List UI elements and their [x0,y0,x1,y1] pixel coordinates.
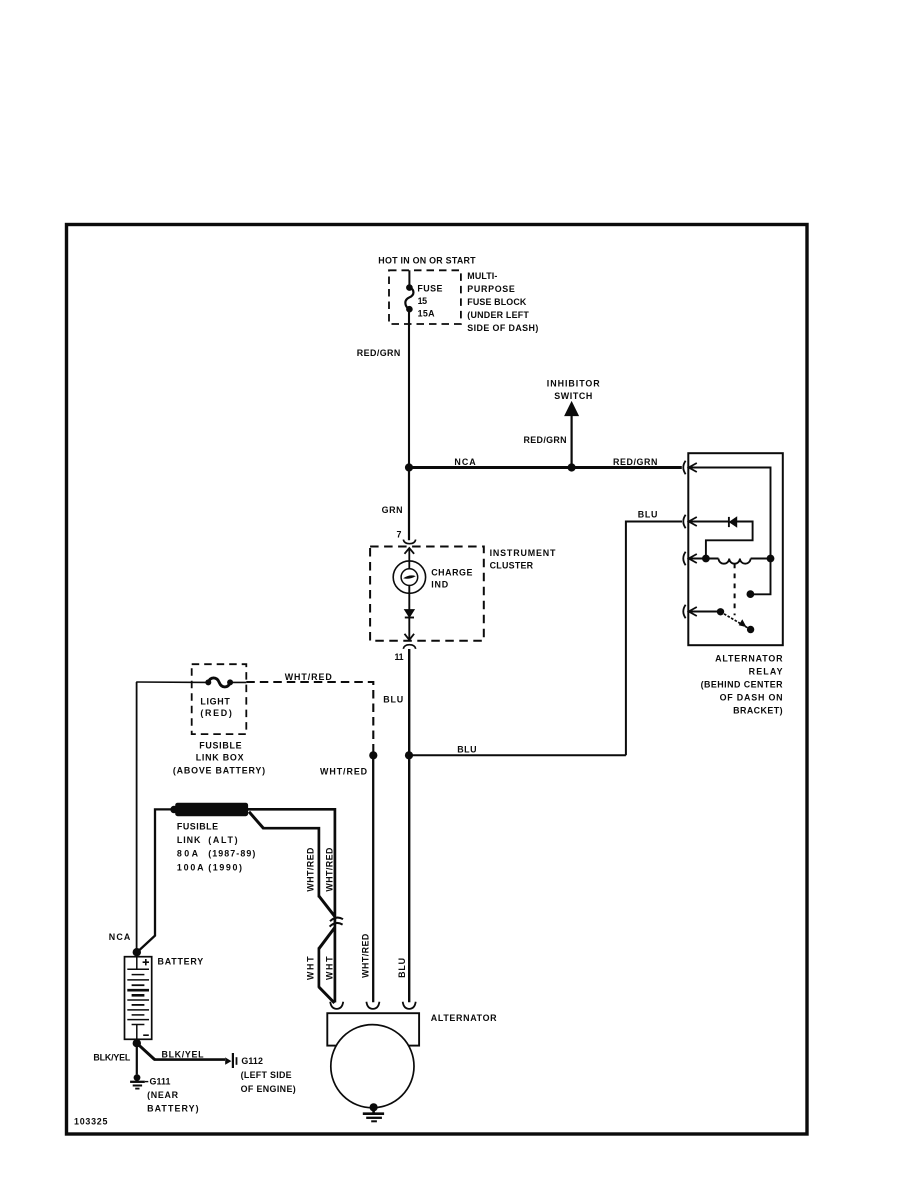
svg-text:BLU: BLU [638,510,658,520]
wire BLK/YEL to G112 [137,1043,155,1059]
svg-text:GRN: GRN [382,505,403,515]
svg-text:7: 7 [397,530,402,540]
cluster pin 11 arrow [405,634,415,640]
svg-text:WHT: WHT [306,956,316,980]
wire relay pin1 internal [690,468,771,595]
svg-text:BLK/YEL: BLK/YEL [162,1050,205,1060]
relay pin 3 connector cup [683,552,685,565]
svg-text:BATTERY): BATTERY) [147,1103,199,1113]
node BLU junction [405,751,413,759]
svg-text:(ABOVE BATTERY): (ABOVE BATTERY) [173,765,265,775]
svg-text:OF DASH ON: OF DASH ON [720,693,783,703]
svg-text:(1990): (1990) [208,862,242,872]
charge indicator bulb [393,561,425,593]
svg-text:CLUSTER: CLUSTER [490,561,534,571]
svg-text:LIGHT: LIGHT [200,697,230,707]
diode D1 in relay [728,517,730,527]
relay pin 4 connector cup [683,605,685,618]
wire diode to pin 11 [408,618,410,640]
svg-text:RED/GRN: RED/GRN [524,435,567,445]
svg-text:100A: 100A [177,862,204,872]
node relay pin3 left junction [702,555,710,563]
fusible link box dashed [192,664,247,734]
alternator connector cup WHT/RED [366,1002,379,1009]
wire BLU horizontal [409,754,626,756]
battery box [125,957,152,1040]
fusible link LIGHT(RED) element [208,678,230,687]
svg-text:WHT: WHT [324,956,334,980]
node battery negative [133,1039,141,1047]
svg-text:(NEAR: (NEAR [147,1090,179,1100]
wire NCA horizontal [409,466,682,469]
svg-text:BLU: BLU [397,958,407,978]
alternator relay box [688,453,783,645]
relay pin 4 arrow [689,607,697,616]
node relay pin4 junction [717,608,724,615]
cluster pin 7 arrow [405,548,415,554]
relay pin 2 arrow [689,517,697,526]
wire fusible link to battery positive [137,809,175,952]
alternator connector cup WHT [330,1002,343,1009]
wire WHT/RED dashed [246,682,373,752]
svg-text:(UNDER LEFT: (UNDER LEFT [467,310,529,320]
svg-text:INSTRUMENT: INSTRUMENT [490,548,556,558]
relay pin 2 connector cup [683,515,685,528]
svg-text:NCA: NCA [454,457,476,467]
wire relay pin2 internal [690,522,753,559]
svg-text:BATTERY: BATTERY [158,956,204,966]
wire WHT/RED right branch 2 [249,812,263,828]
svg-text:BRACKET): BRACKET) [733,706,783,716]
alternator box [327,1013,419,1045]
svg-text:PURPOSE: PURPOSE [467,284,515,294]
diode D2 in cluster [405,610,415,618]
battery negative stem [132,1025,145,1044]
fuse block dashed box [389,270,461,324]
svg-text:HOT IN ON OR START: HOT IN ON OR START [378,255,476,265]
wire WHT/RED right branch 1 [247,809,335,1002]
svg-text:WHT/RED: WHT/RED [306,847,316,892]
svg-text:MULTI-: MULTI- [467,271,497,281]
wire element to box edge [230,681,246,683]
svg-text:RELAY: RELAY [749,667,783,677]
wire fuse top stub [408,270,410,287]
alternator connector cup BLU [403,1002,416,1009]
svg-text:WHT/RED: WHT/RED [360,933,370,978]
node inhibitor junction [568,463,576,471]
wire GRN node to cluster pin 7 [408,468,410,541]
wire WHT branch diverge below splice [319,928,335,949]
svg-text:(BEHIND CENTER: (BEHIND CENTER [701,680,784,690]
battery minus sign [143,1034,149,1036]
wire BLU relay to junction [626,522,682,756]
svg-text:OF ENGINE): OF ENGINE) [241,1084,296,1094]
battery positive stem [136,952,138,969]
alternator circle [331,1025,414,1108]
svg-text:BLU: BLU [457,744,476,754]
svg-text:BLU: BLU [383,694,403,704]
svg-text:INHIBITOR: INHIBITOR [547,379,600,389]
splice break symbol [330,918,343,922]
relay armature dashed link [734,564,736,616]
svg-text:SWITCH: SWITCH [554,391,592,401]
wire relay pin3 internal [690,558,771,560]
svg-text:RED/GRN: RED/GRN [357,348,401,358]
svg-text:LINK BOX: LINK BOX [196,753,244,763]
inhibitor switch arrow [570,415,572,468]
svg-text:80A: 80A [177,849,199,859]
svg-text:IND: IND [431,579,449,589]
svg-text:(1987-89): (1987-89) [208,849,255,859]
wire BLU junction to alternator [408,755,410,1002]
node battery positive [133,948,141,956]
svg-text:CHARGE: CHARGE [431,567,472,577]
svg-text:BLK/YEL: BLK/YEL [93,1053,130,1063]
ground G111 [134,1074,141,1081]
fuse F15 element [405,287,413,309]
svg-text:G111: G111 [150,1077,171,1087]
battery plus sign [143,959,149,965]
svg-text:RED/GRN: RED/GRN [613,457,657,467]
wire BLU cluster pin 11 down [408,649,410,755]
relay pin 1 connector cup [683,461,685,474]
node WHT/RED junction [369,751,377,759]
cluster pin 11 connector cup [403,645,415,649]
svg-text:15A: 15A [418,308,436,318]
svg-text:LINK: LINK [177,835,201,845]
svg-text:NCA: NCA [109,932,131,942]
svg-text:ALTERNATOR: ALTERNATOR [715,654,783,664]
svg-text:15: 15 [418,296,428,306]
alternator ground [370,1103,378,1111]
wire into fusible link box [136,681,208,683]
wire battery negative to G111 [136,1043,138,1074]
svg-text:SIDE OF DASH): SIDE OF DASH) [467,323,538,333]
svg-text:WHT/RED: WHT/RED [324,847,334,892]
relay switch blade [721,612,749,629]
svg-text:11: 11 [395,652,404,662]
relay pin 3 arrow [689,554,697,563]
svg-text:FUSIBLE: FUSIBLE [199,741,241,751]
wire left vertical to battery [136,682,138,952]
battery plates [127,968,149,970]
wire RED/GRN fuse to NCA node [408,309,410,467]
svg-text:FUSE BLOCK: FUSE BLOCK [467,297,527,307]
ground G112 [225,1057,231,1064]
border frame [67,225,808,1135]
instrument cluster dashed box [370,547,484,641]
node relay blade tip [747,626,754,633]
wire relay pin4 internal [690,611,721,613]
relay pin 1 arrow [689,463,697,472]
node relay pin3 right junction [767,555,775,563]
wire bulb to diode [408,586,410,611]
node relay contact [747,590,755,598]
svg-text:WHT/RED: WHT/RED [285,672,333,682]
svg-text:FUSIBLE: FUSIBLE [177,821,218,831]
fusible link ALT bar [175,803,248,817]
svg-text:103325: 103325 [74,1116,107,1126]
svg-text:FUSE: FUSE [417,283,442,293]
svg-text:(ALT): (ALT) [208,835,237,845]
svg-text:(RED): (RED) [200,708,231,718]
relay coil [719,559,751,564]
node NCA junction [405,463,413,471]
svg-text:WHT/RED: WHT/RED [320,767,368,777]
svg-text:(LEFT SIDE: (LEFT SIDE [241,1070,292,1080]
cluster pin 7 connector cup [403,540,415,544]
wire WHT/RED solid down [372,755,374,1002]
svg-text:G112: G112 [241,1056,263,1066]
svg-text:ALTERNATOR: ALTERNATOR [431,1013,497,1023]
